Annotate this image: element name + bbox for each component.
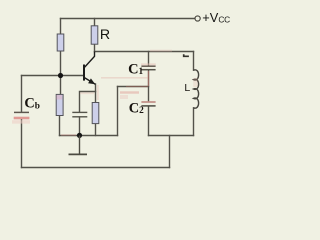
wire: R bottom stub [94, 44, 96, 51]
wire: bypass cap bottom stub [79, 117, 81, 136]
wire: collector rail [95, 51, 194, 53]
ground [69, 136, 88, 155]
capacitor C2 [141, 102, 155, 106]
wire: stub tank bottom to return [169, 136, 171, 168]
jpeg pink ghosts [61, 50, 198, 135]
wire: tank bottom [149, 135, 194, 137]
capacitor C1 [141, 63, 156, 69]
inductor L coil [194, 70, 199, 108]
resistor R1 (upper bias) [57, 34, 64, 51]
wire: ground rail [60, 135, 118, 137]
wire: feedback tap horizontal [118, 86, 149, 88]
wire: base wire [22, 75, 84, 77]
node: ground junction dot [77, 133, 82, 138]
transistor Q1 [84, 52, 95, 85]
small hook mark above inductor [184, 54, 189, 56]
node: base junction dot [58, 73, 63, 78]
wire: R collector resistor top stub [94, 19, 96, 26]
capacitor Cb [12, 112, 30, 123]
transistor emitter arrowhead [88, 78, 95, 84]
Vcc terminal circle [195, 16, 200, 21]
wire: bypass cap top connection [80, 92, 96, 113]
wire: inductor top stub [193, 52, 195, 71]
wire: feedback tap vertical to ground [117, 87, 119, 136]
resistor R2 (lower bias) [56, 94, 63, 115]
wire: left column below Cb [21, 119, 23, 167]
wire: emitter column to Re [95, 84, 97, 103]
wire: bottom return wire [22, 167, 170, 169]
wire: +Vcc top rail [61, 18, 195, 20]
resistor Re (emitter) [92, 103, 99, 124]
wire: left column above Cb [21, 76, 23, 112]
wire: Re bottom stub [95, 124, 97, 136]
svg-text:L: L [184, 82, 190, 94]
resistor R (collector) [91, 26, 98, 44]
wire: tank left below C2 [148, 106, 150, 135]
wire: R2 bottom stub [59, 116, 61, 136]
wire: R2 top stub [60, 76, 62, 95]
svg-text:R: R [100, 27, 110, 43]
wire: R1 bottom to base node [60, 51, 62, 76]
wire: inductor bottom stub [193, 108, 195, 136]
capacitor Ce (bypass) [72, 112, 87, 116]
wire: R1 top stub [60, 19, 62, 35]
wire: tank left top stub [148, 52, 150, 66]
wire: tank left between C1 and C2 [148, 70, 150, 102]
